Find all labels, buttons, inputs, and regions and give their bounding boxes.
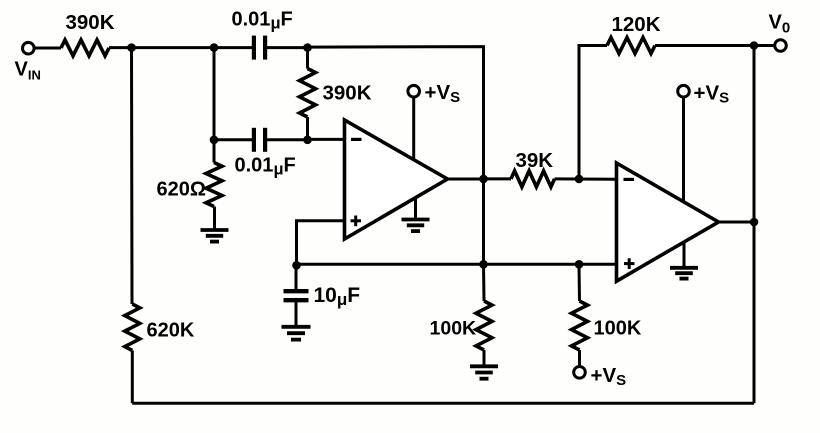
ground (10uF) (282, 327, 311, 340)
label 39K (516, 149, 554, 172)
wire node F to capacitor 10uF (295, 265, 298, 289)
resistor 390K (input) (61, 40, 109, 56)
wire node C down (306, 48, 309, 69)
resistor 100K (grounded) (476, 301, 492, 350)
ground (U2) (670, 268, 698, 279)
wire node A down to R 620K (130, 48, 134, 304)
wire node E to capacitor C2 (214, 138, 253, 141)
wire R 100K right to +VS (578, 350, 581, 367)
wire node L to R 100K right (578, 264, 582, 301)
node I (U2 minus net) (575, 175, 584, 184)
U2 plus symbol (624, 258, 635, 269)
node J (top right) (750, 41, 759, 50)
wire C2 to node D (266, 138, 308, 141)
node E (cap2 left) (210, 136, 219, 145)
wire U1 output (447, 178, 484, 181)
terminal +VS (U1) (408, 85, 420, 97)
label 120K (612, 13, 661, 36)
wire R620 to ground (213, 207, 216, 231)
label 620K (147, 320, 195, 342)
wire 10uF to ground (295, 302, 298, 327)
node C (after C1) (303, 43, 312, 52)
resistor 120K (607, 38, 655, 54)
resistor 100K (to +VS) (572, 301, 588, 350)
svg-text:0.01μF: 0.01μF (235, 155, 296, 179)
op-amp U1 (345, 120, 448, 239)
terminal VIN (23, 42, 35, 54)
resistor 390K (feedback) (300, 69, 316, 118)
capacitor 10uF (284, 291, 309, 300)
label 0.01uF (top) (232, 9, 293, 33)
wire node E down to R 620 (213, 140, 216, 163)
ground (620 ohm) (201, 230, 229, 242)
label +VS (U2) (694, 82, 730, 107)
wire U2 ground stem (683, 242, 686, 268)
ground (U1) (402, 220, 430, 232)
svg-text:120K: 120K (612, 13, 661, 36)
wire right vertical (753, 46, 756, 404)
svg-text:0.01μF: 0.01μF (232, 9, 293, 33)
svg-text:100K: 100K (594, 318, 642, 340)
node H (bus under U1 output) (479, 260, 488, 269)
label +VS (bottom) (591, 364, 627, 389)
wire R390K to node D (306, 117, 309, 142)
svg-text:390K: 390K (66, 11, 115, 34)
terminal +VS (bottom) (574, 367, 586, 379)
label 620 ohm (157, 179, 206, 201)
label VIN (15, 59, 41, 83)
wire lower bus (297, 263, 619, 266)
svg-text:620Ω: 620Ω (157, 179, 206, 201)
label 10uF (314, 284, 361, 309)
wire U2 output (718, 221, 754, 224)
label 390K (feedback) (323, 82, 372, 105)
wire node B down (213, 48, 216, 142)
wire R 100K left to ground (483, 350, 486, 366)
resistor 39K (511, 171, 555, 187)
wire node J to terminal V0 (754, 44, 775, 47)
label 100K (to +VS) (594, 318, 642, 340)
node F (bus left) (292, 261, 301, 270)
U2 minus symbol (624, 178, 635, 181)
label +VS (U1) (425, 81, 461, 106)
svg-text:620K: 620K (147, 320, 195, 342)
wire R 620K to bottom bus (131, 351, 134, 404)
node B (top mid) (210, 43, 219, 52)
wire bottom bus (132, 402, 754, 405)
label 0.01uF (lower) (235, 155, 296, 179)
resistor 620 ohm (206, 163, 222, 207)
wire U1 plus input (297, 221, 347, 264)
wire C1 to node C (266, 46, 308, 49)
wire +VS to U1 (412, 97, 415, 161)
wire node I up and 120K left lead (579, 46, 607, 179)
node K (U2 output) (750, 218, 759, 227)
op-amp U2 (617, 163, 719, 281)
wire VIN to R 390K (34, 47, 61, 50)
capacitor 0.01uF (lower) (254, 128, 265, 152)
node A (top left) (127, 43, 136, 52)
terminal +VS (U2) (678, 85, 690, 97)
U1 minus symbol (351, 138, 362, 141)
label 100K (grounded) (430, 318, 477, 340)
label 390K (input) (66, 11, 115, 34)
wire R 120K to node J (655, 44, 754, 47)
capacitor 0.01uF (top) (254, 36, 265, 60)
label V0 (769, 12, 791, 37)
ground (100K) (470, 366, 498, 378)
svg-text:390K: 390K (323, 82, 372, 105)
svg-text:100K: 100K (430, 318, 477, 340)
terminal V0 (775, 40, 787, 52)
U1 plus symbol (351, 216, 362, 227)
wire R 39K to node I (555, 177, 618, 180)
node L (bus under U2 minus) (575, 260, 584, 269)
wire R 390K to capacitor C1 (109, 46, 253, 49)
wire U1 ground stem (414, 197, 417, 220)
wire U1 output to R 39K (484, 177, 512, 180)
resistor 620K (125, 304, 140, 351)
wire +VS to U2 (682, 97, 685, 203)
wire node D to op-amp U1 minus input (308, 138, 347, 141)
node D (inverting input net) (303, 136, 312, 145)
wire node H to R 100K left (482, 264, 486, 301)
svg-text:39K: 39K (516, 149, 554, 172)
node G (U1 output) (479, 175, 488, 184)
wire node C to feedback corner (308, 47, 484, 265)
